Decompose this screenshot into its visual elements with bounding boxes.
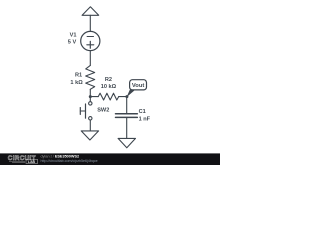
svg-text:10 kΩ: 10 kΩ [101,84,117,90]
svg-text:V1: V1 [70,33,77,39]
svg-text:5 V: 5 V [68,40,77,46]
svg-text:R2: R2 [105,77,112,83]
svg-text:R1: R1 [75,72,82,78]
svg-text:C1: C1 [139,109,146,115]
svg-text:dylan.t / ESE3500WS2: dylan.t / ESE3500WS2 [41,154,80,158]
svg-text:Vout: Vout [132,83,145,89]
svg-text:http://circuitlab.com/c/pzh5e6: http://circuitlab.com/c/pzh5e6j4bqce [41,159,98,163]
svg-text:1 kΩ: 1 kΩ [70,80,83,86]
svg-text:1 nF: 1 nF [139,116,151,122]
svg-text:SW2: SW2 [97,108,109,114]
svg-text:LAB: LAB [28,160,36,164]
